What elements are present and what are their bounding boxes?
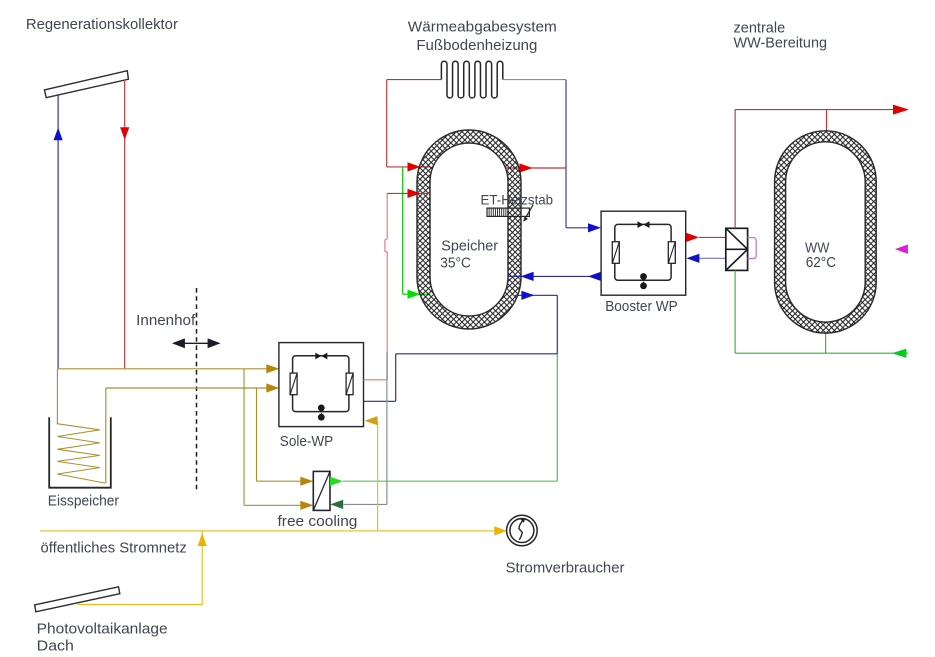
- wire PV feed (yellow) with up arrow: [78, 531, 207, 605]
- label oeffentliches Stromnetz: [41, 540, 187, 557]
- double-headed arrow across boundary: [172, 338, 221, 348]
- Stromverbraucher consumer symbol (double circle): [507, 515, 538, 546]
- svg-text:Eisspeicher: Eisspeicher: [48, 493, 119, 510]
- magenta loop at heat exchanger right: [748, 238, 757, 259]
- wire red into Speicher top-left with arrow: [387, 162, 431, 171]
- label WW 62C: [805, 240, 836, 272]
- wire green free cooling output to junction: [330, 354, 557, 486]
- svg-text:free cooling: free cooling: [278, 513, 358, 530]
- svg-text:Photovoltaikanlage: Photovoltaikanlage: [37, 621, 168, 638]
- label free cooling: [278, 513, 358, 530]
- svg-text:Booster WP: Booster WP: [605, 298, 678, 315]
- label Eisspeicher: [48, 493, 119, 510]
- wire green tee down into Speicher mid-left: [403, 167, 431, 299]
- svg-text:ET-Heizstab: ET-Heizstab: [481, 192, 554, 208]
- svg-text:Stromverbraucher: Stromverbraucher: [506, 559, 625, 576]
- Booster WP refrigerant circuit internals: [612, 221, 675, 289]
- svg-text:35°C: 35°C: [440, 255, 471, 272]
- wire brine header 2 (khaki) to Sole-WP with arrow: [106, 383, 279, 392]
- Speicher 35C buffer tank (crosshatched wall): [417, 130, 521, 329]
- plate heat exchanger (box with triangles): [726, 228, 748, 270]
- label Waermeabgabesystem: [408, 19, 557, 36]
- wire red Sole-WP up to Speicher (pink riser with jog): [363, 189, 430, 380]
- wire brine header 1 (khaki) to Sole-WP with arrow: [57, 364, 279, 373]
- magenta arrow into WW tank right: [895, 245, 908, 254]
- wire blue Booster to Speicher (two left arrows): [508, 272, 601, 281]
- svg-text:Innenhof: Innenhof: [136, 312, 196, 329]
- ice storage brine coil zigzag: [57, 424, 105, 483]
- free cooling heat exchanger (tilted-divided box): [313, 471, 330, 510]
- wire collector cold return (blue up): [54, 95, 63, 369]
- label zentrale WW-Bereitung: [734, 19, 828, 51]
- wire coil left red supply: [387, 80, 442, 167]
- label Booster WP: [605, 298, 678, 315]
- label Stromverbraucher: [506, 559, 625, 576]
- wire khaki branch to free cooling top port: [257, 388, 314, 486]
- label Sole-WP: [280, 433, 333, 450]
- ET-Heizstab electric heating rod symbol: [487, 205, 533, 222]
- svg-text:WW-Bereitung: WW-Bereitung: [734, 35, 828, 52]
- floor heating coil: [441, 61, 502, 98]
- wire red heat exchanger up and right to WW tank and out: [735, 105, 909, 229]
- photovoltaic panel: [35, 587, 120, 612]
- WW 62C hot water tank (crosshatched wall): [775, 131, 877, 333]
- solar regeneration collector panel: [44, 71, 128, 98]
- label Fussbodenheizung: [416, 37, 537, 54]
- label Photovoltaikanlage Dach: [37, 621, 168, 655]
- wire khaki branch to free cooling bottom port: [244, 369, 313, 510]
- svg-text:öffentliches Stromnetz: öffentliches Stromnetz: [41, 540, 187, 557]
- wire public grid line (yellow) to Stromverbraucher: [40, 526, 507, 535]
- wire gray return to free cooling with dark green arrow: [330, 353, 387, 510]
- wire blue heat exchanger to Booster with arrow: [686, 254, 725, 263]
- wire red out of Speicher top-right joining blue drop: [506, 163, 566, 172]
- wire blue Speicher bottom-right out, down-left loop to Sole-WP: [363, 291, 557, 402]
- svg-text:62°C: 62°C: [806, 254, 836, 271]
- Sole-WP refrigerant circuit internals: [290, 353, 353, 421]
- heat pump unit Sole-WP (outer box): [279, 343, 364, 427]
- label Regenerationskollektor: [26, 16, 178, 33]
- svg-text:Sole-WP: Sole-WP: [280, 433, 333, 450]
- wire blue into Booster WP left-top with arrow: [566, 223, 601, 232]
- dashed courtyard boundary line: [196, 288, 198, 493]
- label Speicher 35C: [440, 237, 498, 271]
- svg-text:Wärmeabgabesystem: Wärmeabgabesystem: [408, 19, 557, 36]
- svg-text:Dach: Dach: [37, 638, 74, 655]
- svg-text:Speicher: Speicher: [441, 237, 498, 254]
- svg-text:Regenerationskollektor: Regenerationskollektor: [26, 16, 178, 33]
- wire khaki down to ice storage coil: [56, 369, 58, 424]
- wire red Booster to heat exchanger with arrow: [686, 233, 726, 242]
- wire yellow to Sole-WP compressor with arrow: [365, 416, 378, 531]
- wire green heat exchanger down and right below WW tank: [735, 270, 908, 357]
- heat pump unit Booster WP (outer box): [601, 211, 686, 295]
- ice storage container (open top): [49, 417, 111, 487]
- label ET-Heizstab: [481, 192, 554, 208]
- svg-text:Fußbodenheizung: Fußbodenheizung: [416, 37, 537, 54]
- wire coil right blue return: [503, 80, 566, 228]
- wire collector warm feed (red down): [120, 80, 129, 369]
- label Innenhof: [136, 312, 196, 329]
- wire khaki down right side into ice storage: [105, 388, 107, 483]
